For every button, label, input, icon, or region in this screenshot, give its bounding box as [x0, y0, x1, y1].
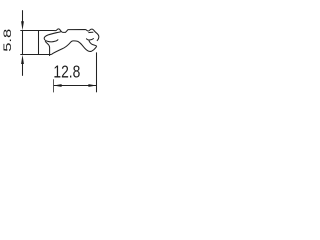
vertical dimension up arrowhead	[21, 55, 24, 64]
right hook inner bottom curl	[86, 38, 93, 40]
vertical dimension upper tail	[22, 10, 24, 21]
horizontal dimension left arrowhead	[53, 84, 61, 87]
vertical dimension down arrowhead	[21, 21, 24, 30]
horizontal dimension right extension line	[96, 52, 98, 92]
left inner wall	[45, 41, 50, 56]
svg-text:12.8: 12.8	[53, 62, 80, 82]
left curled lip	[44, 32, 61, 42]
horizontal dimension left extension line	[53, 79, 55, 92]
profile bottom edge rising diagonal and bottom-right valley	[20, 41, 96, 55]
horizontal dimension line	[54, 85, 97, 87]
profile left edge	[38, 31, 40, 55]
vertical dimension lower tail	[22, 64, 24, 76]
vertical dimension connector	[22, 31, 24, 55]
horizontal dimension right arrowhead	[88, 84, 96, 87]
under-hook inner line	[89, 40, 97, 46]
right hook inner lip	[88, 31, 93, 33]
svg-text:5.8: 5.8	[1, 29, 14, 52]
profile top edge with left knob, centre plateau and right hook outer wall	[20, 29, 99, 41]
